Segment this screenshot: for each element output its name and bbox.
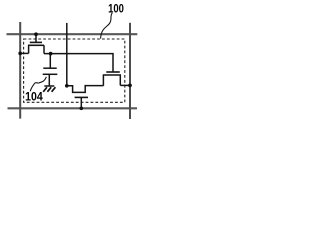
capacitor C1 top plate [43,67,56,69]
junction dot: Q2 drain / right rail [128,84,132,88]
svg-text:104: 104 [25,90,43,104]
dashed block boundary 100 [24,39,125,102]
capacitor C1 bottom lead [48,74,50,86]
junction dot: Q3 gate on bottom rail [79,106,83,110]
capacitor C1 bottom plate [43,73,58,75]
transistor Q2 channel [103,74,121,76]
leader line for label 104 [30,77,46,92]
ground hatch strokes [43,87,55,92]
wire: net C to Q2 source via transistor Q3 channel dip [67,86,104,93]
junction dot: Q1 gate on top rail [34,32,38,36]
transistor Q2 source leg [102,75,104,86]
ground bar [44,85,54,87]
junction dot: net C / Q2 source wire [65,84,69,88]
transistor Q3 gate bar [75,96,88,98]
wire: vertical net C [66,23,68,86]
top power rail [7,33,138,35]
transistor Q2 drain leg [119,75,121,85]
wire: Q1 drain to Q2 gate [44,54,113,72]
leader line for label 100 [101,13,113,39]
svg-text:100: 100 [108,2,124,16]
transistor Q1 drain leg [43,45,45,53]
capacitor C1 top lead [49,54,51,68]
transistor Q1 source leg [28,45,30,53]
junction dot: capacitor tap [49,52,53,56]
transistor Q1 gate stub [35,34,37,42]
left vertical rail [19,22,21,119]
junction dot: left rail / Q1 source wire [18,52,22,56]
transistor Q1 gate bar [30,41,42,43]
transistor Q1 channel [28,44,44,46]
wire: left rail to Q1 [20,52,28,54]
wire: Q2 drain to right rail [120,84,130,86]
transistor Q2 gate bar [106,71,120,73]
right vertical rail [129,23,131,119]
transistor Q3 gate stub to bottom rail [80,97,82,108]
bottom power rail [8,107,138,109]
